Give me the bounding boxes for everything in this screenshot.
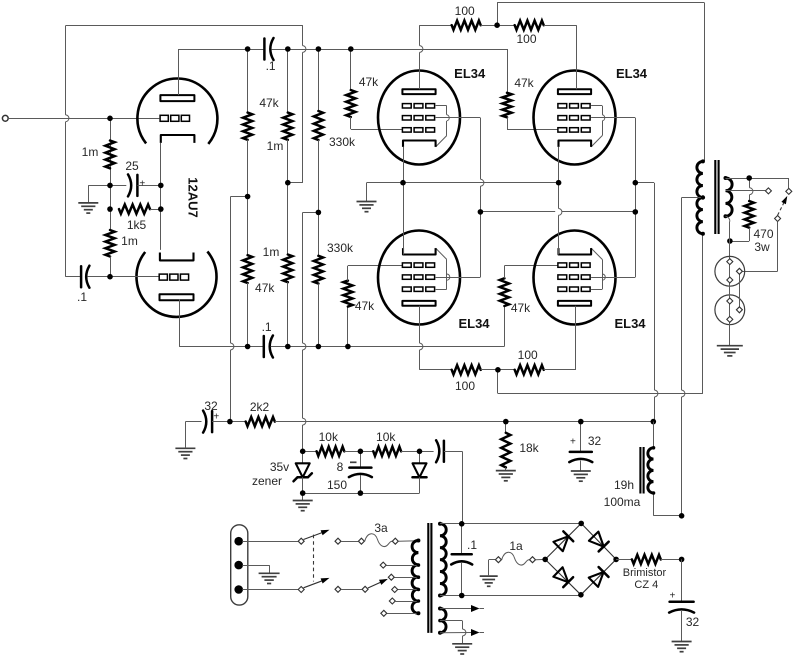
- capacitor 25uF cathode bypass: [110, 174, 161, 196]
- contact diamond (sec top): [786, 188, 792, 194]
- transformer T2 secondary: [724, 176, 733, 218]
- tap diamond 3: [392, 587, 398, 593]
- svg-text:EL34: EL34: [458, 316, 490, 331]
- ground (mains earth): [259, 573, 280, 583]
- label 47k (UR stopper): [514, 76, 534, 90]
- svg-text:EL34: EL34: [616, 66, 648, 81]
- wire: upper grid bus: [271, 49, 507, 93]
- label 8: [337, 460, 344, 474]
- contact diamond (sw L out): [335, 538, 341, 544]
- svg-text:47k: 47k: [255, 281, 275, 295]
- label + (reservoir): [669, 591, 675, 602]
- wire: heater CT: [440, 621, 466, 644]
- label 150: [327, 478, 347, 492]
- selector arm: [368, 579, 388, 588]
- wire: 1m to lower grid wire: [110, 257, 112, 277]
- label 1m (lower paraphase): [263, 245, 280, 259]
- node dot (2k2/32uF): [227, 419, 233, 425]
- transformer T1 core: [428, 523, 431, 633]
- wire: upper anodes to OPT top: [497, 3, 704, 162]
- label .1 (snubber): [467, 538, 477, 552]
- svg-text:32: 32: [588, 434, 602, 448]
- contact diamond (fuse out): [392, 538, 398, 544]
- svg-text:47k: 47k: [355, 299, 375, 313]
- tap wire 2: [395, 577, 419, 579]
- svg-text:35v: 35v: [270, 460, 289, 474]
- wire: fuse to primary: [399, 540, 419, 542]
- rectifier diode D2 (T-R): [581, 523, 616, 559]
- wire: secondary bottom: [726, 216, 730, 258]
- node dot (paraphase midpoint): [285, 180, 291, 186]
- label EL34 (V3): [458, 316, 490, 331]
- wire: top bus (paraphase feedback): [66, 25, 303, 27]
- wire: bias rail: [303, 451, 317, 453]
- svg-text:10k: 10k: [376, 430, 396, 444]
- svg-text:1m: 1m: [263, 245, 280, 259]
- contact diamond (selector pivot): [362, 586, 368, 592]
- transformer T2 core: [715, 160, 718, 234]
- wire: V1a plate to upper grid bus: [179, 49, 265, 95]
- wire: OPT centre tap to HT: [682, 198, 703, 517]
- tube V4 EL34 upper-right: [534, 71, 616, 165]
- wire: secondary tap: [726, 190, 766, 192]
- ground (input stage): [78, 203, 98, 213]
- label 47k (UL stopper): [359, 75, 379, 89]
- wire: UL plate riser: [420, 25, 423, 89]
- wire: arm to speaker hot: [743, 222, 778, 272]
- resistor 10k (bias 2): [360, 447, 419, 456]
- tap wire 1: [387, 565, 419, 567]
- label EL34 (V2): [454, 66, 486, 81]
- choke core: [640, 447, 643, 494]
- transformer T1 heater secondary: [438, 607, 446, 635]
- resistor 1m (lower paraphase): [283, 183, 292, 347]
- label 2k2: [250, 400, 270, 414]
- tube V1b 12AU7 lower triode: [137, 252, 217, 317]
- svg-text:.1: .1: [262, 320, 272, 334]
- zener 35v: [294, 451, 312, 493]
- choke 19h 100ma: [648, 422, 682, 516]
- wire: lower anodes to OPT bottom: [498, 234, 703, 394]
- wire: HV top: [440, 523, 581, 525]
- arrow heater B: [471, 629, 484, 636]
- resistor 2k2: [230, 417, 653, 426]
- wire: LR plate riser: [575, 306, 577, 370]
- label Brimistor: [623, 567, 667, 579]
- arrow heater A: [471, 605, 484, 612]
- wire: secondary top to switch: [726, 178, 789, 188]
- svg-text:CZ 4: CZ 4: [634, 579, 658, 591]
- label 100ma: [604, 495, 641, 509]
- svg-text:.1: .1: [77, 290, 87, 304]
- label 3a: [374, 521, 388, 535]
- plug pin N: [234, 585, 243, 594]
- svg-text:2k2: 2k2: [250, 400, 270, 414]
- tap wire 4: [396, 601, 419, 603]
- tube V3 EL34 lower-left: [378, 231, 460, 325]
- label 47k (upper load): [259, 96, 279, 110]
- transformer T1 HV secondary: [438, 522, 446, 598]
- label 32 (screen cap): [588, 434, 602, 448]
- tap diamond 1: [380, 562, 386, 568]
- node dot (upper anode centre): [494, 22, 500, 28]
- resistor 100 (lower left): [452, 365, 481, 374]
- wire: left screens vertical: [447, 118, 484, 278]
- terminal diamonds (speaker 1): [727, 259, 733, 283]
- resistor 10k (bias 1): [317, 447, 361, 456]
- svg-text:EL34: EL34: [454, 66, 486, 81]
- node dots (secondary): [727, 175, 752, 244]
- wire: UR plate riser: [576, 25, 578, 89]
- label 47k (LL stopper): [355, 299, 375, 313]
- contact diamond (sw N in): [298, 587, 304, 593]
- label 470: [753, 227, 773, 241]
- label 10k (1): [319, 430, 339, 444]
- bridge vertex dots: [542, 521, 618, 598]
- wire: node to ground: [88, 185, 110, 203]
- wire: heater lead B: [440, 632, 471, 634]
- switch arm L: [304, 530, 330, 540]
- capacitor .1 (V1b grid input): [81, 266, 109, 288]
- svg-text:12AU7: 12AU7: [186, 177, 201, 217]
- svg-text:3w: 3w: [754, 240, 770, 254]
- resistor 330k (lower grid): [314, 212, 323, 346]
- node dot (plate loads join): [245, 194, 251, 200]
- wire: 330k midpoint to bias rail: [303, 212, 319, 451]
- terminal diamonds (hot posts): [736, 268, 742, 313]
- label 100 (lower right): [518, 348, 538, 362]
- tube V5 EL34 lower-right: [534, 231, 616, 325]
- ground (18k): [496, 471, 516, 481]
- contact diamond (sw N out): [335, 586, 341, 592]
- wire: input to V1a grid: [8, 118, 159, 120]
- svg-text:330k: 330k: [327, 241, 354, 255]
- wire: ground to fuse: [489, 559, 495, 561]
- svg-text:1a: 1a: [509, 539, 523, 553]
- fuse 3a: [365, 534, 393, 547]
- wire: switch to fuse: [341, 541, 358, 543]
- svg-text:150: 150: [327, 478, 347, 492]
- svg-text:470: 470: [753, 227, 773, 241]
- svg-text:100: 100: [455, 379, 475, 393]
- node dots (bias): [300, 449, 422, 496]
- resistor 1m (upper paraphase): [283, 49, 292, 183]
- label 12AU7: [186, 177, 201, 217]
- resistor 47k (lower-right grid stopper): [500, 266, 558, 347]
- capacitor .1 lower coupling: [264, 336, 273, 358]
- wire: bias return rail: [303, 493, 420, 495]
- node dot (330k midpoint): [316, 210, 322, 216]
- transformer T2 primary (OPT): [697, 159, 705, 235]
- label 25: [125, 159, 139, 173]
- node dot (B+): [679, 557, 685, 563]
- node dot (lower anode centre): [495, 367, 501, 373]
- resistor 47k (upper-right grid stopper): [502, 93, 558, 130]
- wire: V1 cathode line: [160, 143, 162, 250]
- ground (heater CT): [452, 644, 472, 654]
- node dots (upper grid bus): [245, 46, 354, 52]
- svg-text:1m: 1m: [82, 145, 99, 159]
- input jack J1: [2, 115, 8, 121]
- rectifier diode D4 (B-R): [581, 559, 616, 594]
- label 47k (lower load): [255, 281, 275, 295]
- svg-text:100ma: 100ma: [604, 495, 641, 509]
- capacitor .1 upper coupling: [264, 38, 273, 60]
- svg-text:+: +: [139, 179, 145, 190]
- svg-text:EL34: EL34: [614, 316, 646, 331]
- wire: midpoint riser to top bus: [288, 26, 306, 183]
- resistor 1m (V1b grid): [105, 230, 114, 257]
- svg-text:19h: 19h: [614, 478, 634, 492]
- plug pin L: [234, 537, 243, 546]
- HV secondary lead stubs: [440, 524, 445, 596]
- label 330k (upper): [329, 135, 356, 149]
- terminal diamonds (speaker 2): [727, 298, 733, 322]
- contact diamond (fuse in): [358, 538, 364, 544]
- ground (speaker): [717, 346, 743, 356]
- contact diamond (1a out): [530, 557, 536, 563]
- resistor 1k5 cathode: [119, 205, 150, 214]
- svg-text:330k: 330k: [329, 135, 356, 149]
- label 100 (upper right): [516, 32, 536, 46]
- primary end dots: [416, 539, 420, 616]
- switch arm N: [304, 578, 330, 588]
- ground (bias): [293, 493, 313, 511]
- speaker jack 1: [715, 256, 745, 286]
- label 330k (lower): [327, 241, 354, 255]
- contact diamond (sec tap): [765, 188, 771, 194]
- tap diamond 4: [389, 598, 395, 604]
- speaker jack 2: [715, 295, 745, 325]
- node dot (choke out): [679, 513, 685, 519]
- capacitor 32uF (screen rail): [569, 422, 592, 471]
- ground (bias fuse): [480, 560, 498, 587]
- resistor 47k (upper-left grid stopper): [346, 49, 402, 130]
- wire: cathode bus: [367, 183, 559, 202]
- label 100 (upper left): [455, 4, 475, 18]
- label 1m (upper paraphase): [267, 139, 284, 153]
- svg-text:1m: 1m: [267, 139, 284, 153]
- mains plug: [231, 525, 248, 605]
- ground (reservoir): [672, 642, 692, 652]
- wire: screen rail: [480, 211, 635, 213]
- thermistor Brimistor CZ4: [616, 555, 682, 564]
- wire: selector wire: [341, 589, 362, 591]
- rectifier diode D3 (L-B): [545, 559, 581, 594]
- node dots (cathode bus): [400, 180, 561, 186]
- node dots (lower grid bus): [245, 344, 351, 350]
- resistor 470 3w: [730, 178, 754, 242]
- wire: live to switch: [242, 541, 298, 543]
- node dot (OPT CT): [701, 195, 705, 199]
- tap diamond 2: [388, 574, 394, 580]
- plug pin E: [234, 561, 243, 570]
- ground (32uF screen): [571, 471, 591, 481]
- tap diamond 5: [381, 610, 387, 616]
- wire: V1b plate to lower grid bus: [179, 299, 264, 346]
- label .1 (upper): [266, 59, 276, 73]
- label + (splitter cap): [213, 412, 219, 423]
- label 32 (reservoir): [686, 615, 700, 629]
- svg-text:25: 25: [125, 159, 139, 173]
- label 1m (lower): [121, 234, 138, 248]
- wire: cap to V1b grid: [110, 276, 159, 278]
- svg-text:47k: 47k: [514, 76, 534, 90]
- tap wire 3: [398, 589, 418, 591]
- tube V1a 12AU7 upper triode: [137, 78, 217, 143]
- svg-text:+: +: [669, 591, 675, 602]
- wire: speaker return line: [729, 258, 731, 345]
- label 3w: [754, 240, 770, 254]
- wire: earth pin: [242, 565, 269, 573]
- svg-text:47k: 47k: [511, 301, 531, 315]
- label + (25uF): [139, 179, 145, 190]
- label EL34 (V4): [616, 66, 648, 81]
- resistor 330k (upper grid): [314, 49, 323, 212]
- resistor 47k (lower-left grid stopper): [343, 266, 402, 347]
- switch link (dashed): [313, 535, 315, 582]
- label 19h: [614, 478, 634, 492]
- resistor 18k (screen bleeder): [501, 422, 510, 471]
- wire: left EL34 cathodes: [403, 147, 405, 255]
- tube V2 EL34 upper-left: [378, 71, 460, 165]
- svg-text:+: +: [570, 437, 576, 448]
- node dots (bias network): [107, 116, 163, 280]
- wire: bias node vertical: [110, 118, 112, 230]
- node dots (snubber): [459, 521, 465, 598]
- label 32 (splitter cap): [204, 399, 218, 413]
- resistor 100 (upper left): [419, 21, 480, 30]
- label minus (8uF): [350, 461, 357, 463]
- svg-text:100: 100: [518, 348, 538, 362]
- wire: bias feed to HV: [462, 451, 464, 524]
- label .1 (input cap): [77, 290, 87, 304]
- wire: heater lead A: [440, 608, 471, 610]
- capacitor 8uF 150v: [349, 451, 372, 493]
- wire: right EL34 cathodes: [559, 147, 562, 255]
- label 47k (LR stopper): [511, 301, 531, 315]
- svg-text:100: 100: [455, 4, 475, 18]
- svg-text:32: 32: [686, 615, 700, 629]
- label 1a: [509, 539, 523, 553]
- wire: right screens vertical: [602, 118, 635, 278]
- label 100 (lower left): [455, 379, 475, 393]
- label 10k (2): [376, 430, 396, 444]
- wire: plate loads to HT dropper: [231, 197, 248, 422]
- wire: 1k5 to cathode line: [150, 209, 161, 211]
- wire: left vertical to lower grid cap: [66, 26, 81, 277]
- resistor 47k (V1b plate load): [243, 197, 252, 347]
- resistor 1m (V1a grid): [105, 141, 114, 169]
- capacitor .1 (HV snubber): [451, 524, 472, 596]
- svg-text:zener: zener: [252, 474, 282, 488]
- label .1 (lower): [262, 320, 272, 334]
- fuse 1a: [502, 552, 530, 565]
- diode (bias rectifier): [413, 451, 427, 493]
- svg-text:8: 8: [337, 460, 344, 474]
- node dots (HT rail): [503, 419, 656, 425]
- switch arm (output select): [778, 196, 788, 215]
- capacitor (bias feed): [420, 440, 463, 462]
- transformer T1 primary: [412, 540, 418, 613]
- node dots (screen rail): [478, 180, 638, 215]
- contact diamond (1a in): [495, 557, 501, 563]
- wire: series link: [739, 271, 741, 310]
- ground (output cathodes): [357, 202, 377, 212]
- svg-text:Brimistor: Brimistor: [623, 567, 667, 579]
- capacitor 32uF (splitter decoupling): [185, 411, 230, 433]
- svg-text:.1: .1: [266, 59, 276, 73]
- svg-text:47k: 47k: [359, 75, 379, 89]
- wire: fuse to bridge: [536, 558, 545, 560]
- resistor 100 (upper right): [481, 21, 577, 30]
- svg-text:1k5: 1k5: [127, 218, 147, 232]
- contact diamond (arm pivot): [775, 216, 781, 222]
- label CZ 4: [634, 579, 658, 591]
- svg-text:1m: 1m: [121, 234, 138, 248]
- label zener: [252, 474, 282, 488]
- wire: HV bottom: [440, 595, 581, 597]
- svg-text:.1: .1: [467, 538, 477, 552]
- resistor 100 (lower right): [481, 365, 576, 374]
- rectifier diode D1 (L-T): [545, 523, 581, 559]
- label 18k: [519, 441, 539, 455]
- label 1k5: [127, 218, 147, 232]
- svg-text:100: 100: [516, 32, 536, 46]
- label EL34 (V5): [614, 316, 646, 331]
- wire: LL plate dropper: [419, 306, 451, 370]
- label 35v: [270, 460, 289, 474]
- ground (HT filter): [175, 422, 195, 459]
- wire: screens to HT rail: [635, 183, 658, 422]
- contact diamond (sw L in): [298, 538, 304, 544]
- svg-text:18k: 18k: [519, 441, 539, 455]
- label 1m: [82, 145, 99, 159]
- svg-text:47k: 47k: [259, 96, 279, 110]
- capacitor 32uF (reservoir): [669, 559, 694, 641]
- label + (screen cap): [570, 437, 576, 448]
- resistor 47k (V1a plate load): [243, 49, 252, 197]
- svg-text:10k: 10k: [319, 430, 339, 444]
- tap wire 5: [387, 613, 418, 615]
- wire: lower grid bus: [271, 346, 505, 348]
- svg-text:3a: 3a: [374, 521, 388, 535]
- svg-text:+: +: [213, 412, 219, 423]
- wire: neutral to switch: [242, 589, 298, 591]
